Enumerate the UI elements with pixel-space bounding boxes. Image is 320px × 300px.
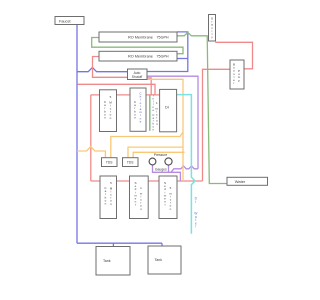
pressure gauge 2 (165, 158, 172, 165)
box TDS meter 1 (102, 158, 118, 167)
box auto shutoff (128, 69, 148, 80)
box carbon 5 micron lower (100, 176, 117, 219)
wire orange branch to TDS1 with jog (111, 132, 183, 158)
wire green RO1 waste to water box with hop over blue (177, 32, 227, 183)
wire blue bottom header to tanks (77, 242, 162, 244)
wire blue RO2 permeate stub (177, 58, 188, 60)
wire blue drop to tank1 (112, 243, 114, 246)
wire blue auto shutoff to membranes vertical (147, 32, 188, 72)
box sediment 1 micron (130, 176, 149, 219)
svg-text:TDS: TDS (127, 161, 134, 165)
svg-text:Water: Water (235, 179, 246, 184)
wire red gravity box to booster (215, 42, 252, 69)
box RO membrane 2 (99, 51, 177, 61)
wire red middle row bus (91, 94, 160, 96)
box carbon chloramine (130, 88, 146, 131)
pressure gauge 1 (149, 158, 156, 165)
box tank 1 (96, 247, 130, 276)
svg-text:Tank: Tank (103, 259, 111, 263)
wire orange faucet tap to TDS1 with hop over red (77, 147, 105, 158)
wire red auto shutoff left to RO2 (93, 57, 128, 78)
box DI (160, 89, 177, 131)
wire purple gauge2 stub (168, 165, 170, 173)
wire blue faucet main vertical (76, 25, 78, 244)
wire green RO1 to RO2 loop (92, 38, 183, 54)
wire purple gauge link with hops over orange and cyan (171, 166, 198, 172)
box booster pump (230, 60, 244, 89)
svg-text:Gauges: Gauges (155, 168, 167, 172)
wire red left riser (90, 95, 92, 181)
wire orange auto shutoff right run and main drop (147, 79, 183, 181)
wire orange branch to TDS2 second (133, 152, 184, 157)
svg-text:Tank: Tank (155, 258, 163, 262)
svg-text:Shutoff: Shutoff (132, 75, 142, 79)
box carbon 5 micron upper (100, 90, 117, 132)
wire red faucet tee line y84 (78, 84, 156, 95)
svg-text:TDS: TDS (106, 161, 113, 165)
svg-text:RO Membrane: RO Membrane (128, 36, 153, 40)
wire purple auto shutoff to gauges riser (147, 76, 198, 169)
wire red booster to bottom row (203, 69, 231, 181)
box faucet (55, 17, 84, 25)
wire blue drop to tank2 (161, 243, 163, 246)
svg-text:75GPH: 75GPH (157, 55, 169, 59)
box tank 2 (148, 246, 181, 274)
box sediment 5 micron (159, 176, 177, 219)
wire red auto shutoff right drop (147, 78, 151, 95)
box RO membrane 1 (99, 32, 177, 42)
wire blue branch to auto shutoff with hop over red (77, 67, 128, 71)
wire red bottom row bus (91, 180, 203, 182)
svg-text:Faucet: Faucet (59, 19, 72, 23)
wire orange branch to TDS2 first (128, 147, 183, 158)
svg-text:Pressure: Pressure (154, 153, 168, 157)
wire green inline filter body (149, 95, 151, 131)
svg-text:75GPH: 75GPH (157, 36, 169, 40)
box water (227, 177, 268, 185)
box gravity feed (209, 15, 216, 42)
box TDS meter 2 (123, 158, 139, 167)
svg-text:DI: DI (165, 106, 169, 110)
svg-text:RO Membrane: RO Membrane (128, 55, 153, 59)
wire purple gauge bottom run (153, 165, 181, 181)
wire cyan DI to DI water output with hop over red (177, 95, 195, 234)
